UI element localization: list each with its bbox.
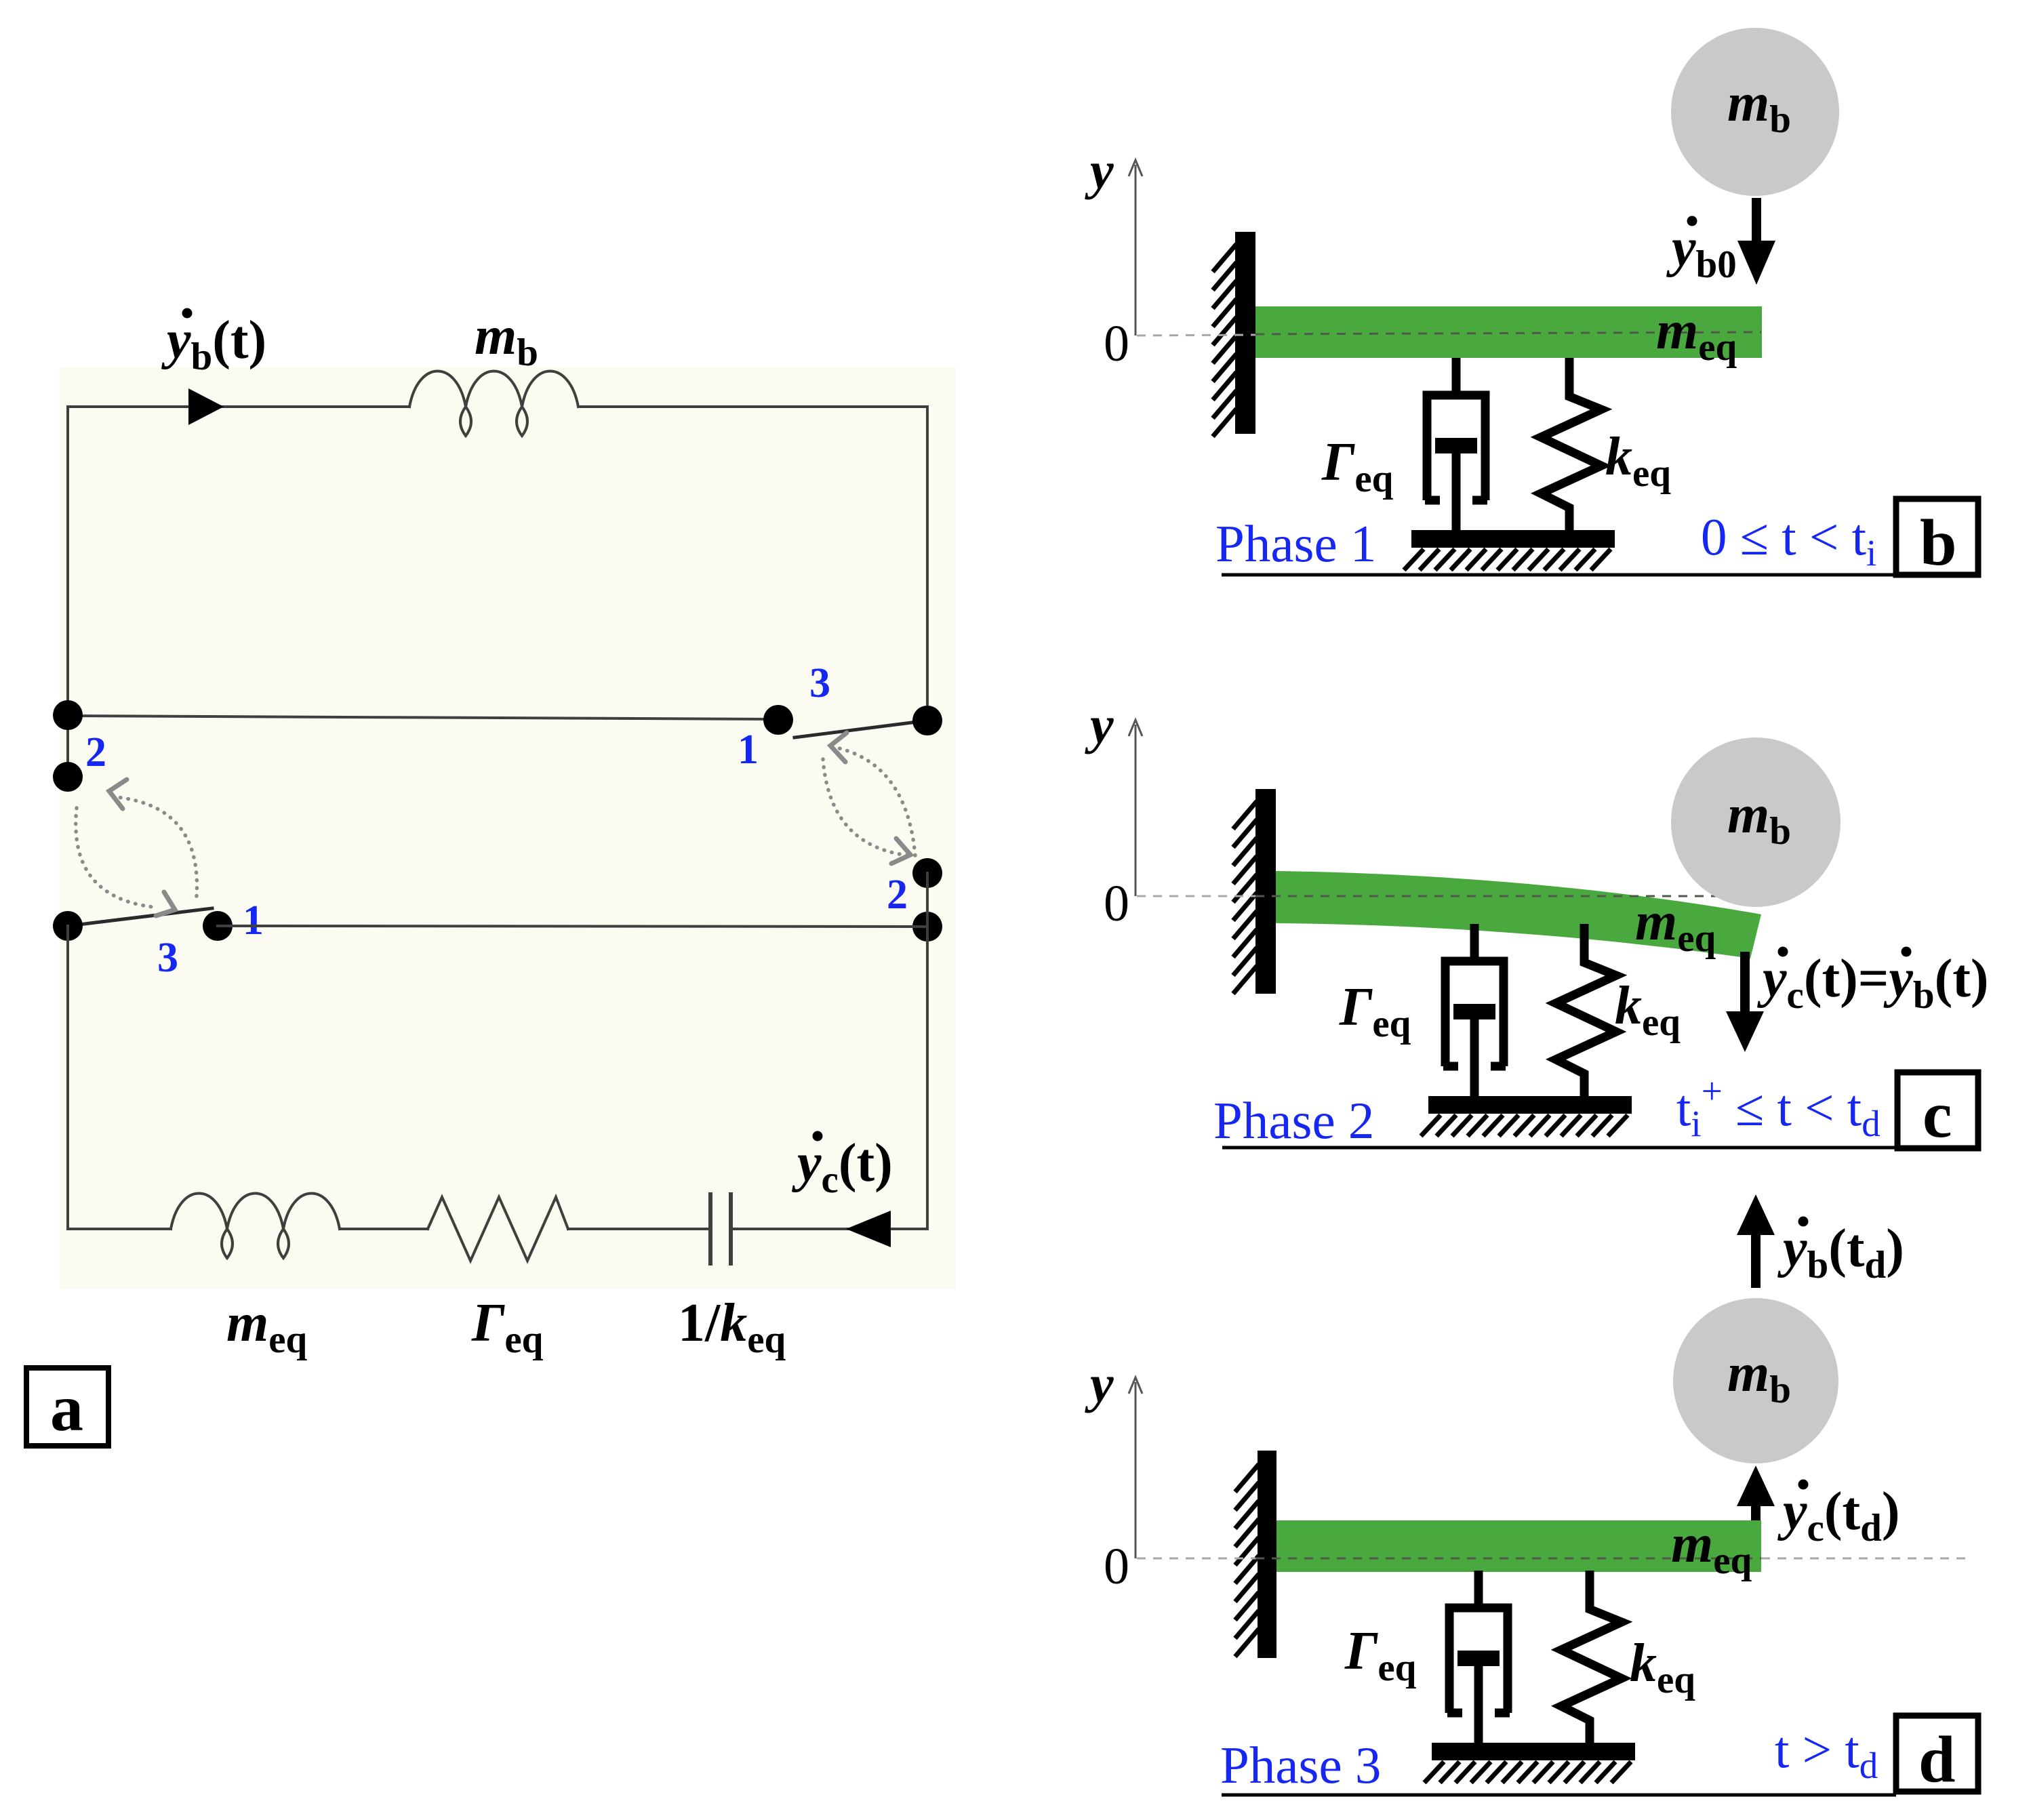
capacitor 1/k_eq bbox=[710, 1194, 731, 1263]
switch S2 toggle arcs bbox=[823, 733, 915, 864]
svg-text:b: b bbox=[1920, 506, 1957, 580]
wall bar (c) bbox=[1255, 789, 1276, 994]
wire left vertical upper bbox=[66, 407, 69, 777]
launch arrow yb(td) (d) bbox=[1737, 1194, 1775, 1288]
velocity arrow yb0 (b) bbox=[1737, 198, 1775, 285]
svg-text:2: 2 bbox=[887, 872, 908, 918]
underline (b) bbox=[1222, 573, 1895, 577]
svg-text:d: d bbox=[1918, 1723, 1956, 1796]
wire bottom segment 3 bbox=[568, 1228, 710, 1230]
node left-2 bbox=[53, 762, 83, 792]
wire middle upper bbox=[68, 716, 778, 719]
base (c) bbox=[1428, 1096, 1632, 1114]
node right-bottom bbox=[912, 912, 942, 942]
spring k_eq (d) bbox=[1561, 1571, 1622, 1743]
node right-top bbox=[912, 706, 942, 735]
beam m_eq (d) bbox=[1276, 1520, 1761, 1572]
panel label box c bbox=[1897, 1072, 1978, 1152]
node left-1 bbox=[203, 911, 233, 941]
ball m_b (b) bbox=[1671, 28, 1839, 196]
underline (d) bbox=[1222, 1794, 1896, 1797]
wire bottom segment 2 bbox=[340, 1228, 428, 1230]
wire bottom segment 4 bbox=[731, 1228, 927, 1230]
zero dashed line (d) bbox=[1137, 1558, 1968, 1560]
wire right vertical upper bbox=[926, 407, 929, 721]
node right-2 bbox=[912, 858, 942, 888]
beam m_eq (c, deflected) bbox=[1276, 871, 1761, 958]
wire top-right segment bbox=[578, 405, 927, 408]
svg-text:0: 0 bbox=[1104, 875, 1129, 932]
node left-top bbox=[53, 700, 83, 730]
svg-text:3: 3 bbox=[809, 660, 830, 706]
resistor Gamma_eq bbox=[428, 1197, 568, 1261]
label yb(t) bbox=[161, 308, 266, 379]
base (b) bbox=[1411, 530, 1615, 548]
wire bottom segment 1 bbox=[68, 1228, 171, 1230]
wall bar (d) bbox=[1258, 1451, 1276, 1658]
wire top-left segment bbox=[68, 405, 409, 408]
svg-text:a: a bbox=[50, 1372, 83, 1445]
wall hatch (b) bbox=[1213, 244, 1236, 437]
underline (c) bbox=[1222, 1146, 1896, 1150]
spring k_eq (c) bbox=[1556, 924, 1616, 1096]
ball m_b (c) bbox=[1671, 737, 1841, 907]
label yb0 (b) bbox=[1666, 216, 1737, 287]
switch S1 lever bbox=[68, 908, 212, 926]
panel label box a bbox=[26, 1368, 108, 1446]
zero dashed line (c) bbox=[1137, 895, 1750, 897]
label yb(td) (d) bbox=[1777, 1217, 1904, 1287]
inductor m_b bbox=[409, 371, 578, 437]
node left-pivot bbox=[53, 911, 83, 941]
y axis (c) bbox=[1129, 720, 1142, 896]
svg-text:1: 1 bbox=[243, 897, 264, 944]
ground hatch (d) bbox=[1424, 1762, 1631, 1783]
current arrow yc(t) bbox=[846, 1211, 891, 1247]
wire left vertical lower bbox=[66, 926, 69, 1229]
node right-1 bbox=[763, 705, 793, 735]
svg-text:Phase 3: Phase 3 bbox=[1220, 1736, 1381, 1794]
spring k_eq (b) bbox=[1541, 358, 1601, 530]
svg-text:0: 0 bbox=[1104, 1538, 1129, 1595]
label yc(td) (d) bbox=[1777, 1480, 1899, 1550]
damper (d) bbox=[1447, 1571, 1510, 1744]
tip arrow yc(td) (d) bbox=[1737, 1465, 1775, 1522]
inductor m_eq bbox=[171, 1194, 340, 1259]
wall bar (b) bbox=[1235, 232, 1255, 434]
panel label box b bbox=[1896, 499, 1978, 580]
beam m_eq (b) bbox=[1255, 306, 1762, 358]
svg-text:0 ≤ t < ti: 0 ≤ t < ti bbox=[1701, 508, 1876, 573]
base (d) bbox=[1432, 1743, 1635, 1760]
svg-text:1: 1 bbox=[738, 727, 759, 773]
svg-text:yc(td): yc(td) bbox=[1777, 1482, 1899, 1550]
wall hatch (d) bbox=[1235, 1464, 1259, 1657]
svg-text:0: 0 bbox=[1104, 315, 1129, 372]
wire right vertical lower bbox=[926, 873, 929, 1229]
label yc(t)=yb(t) (c) bbox=[1756, 947, 1988, 1017]
y axis (b) bbox=[1129, 160, 1142, 336]
damper (b) bbox=[1425, 358, 1487, 531]
switch S2 lever bbox=[795, 721, 927, 737]
wire middle lower bbox=[218, 926, 927, 927]
panel label box d bbox=[1896, 1716, 1978, 1796]
svg-text:yb(t): yb(t) bbox=[161, 310, 266, 378]
current arrow yb(t) bbox=[188, 388, 224, 425]
wall hatch (c) bbox=[1233, 801, 1257, 994]
ball m_b (d) bbox=[1673, 1298, 1838, 1463]
damper (c) bbox=[1443, 924, 1506, 1097]
svg-text:Phase 2: Phase 2 bbox=[1213, 1091, 1374, 1150]
label yc(t) (circuit) bbox=[791, 1131, 893, 1202]
velocity arrow yc(t) (c) bbox=[1726, 952, 1764, 1052]
switch S1 toggle arcs bbox=[76, 780, 197, 916]
ground hatch (c) bbox=[1421, 1115, 1628, 1136]
svg-text:yc(t): yc(t) bbox=[791, 1133, 893, 1201]
svg-text:2: 2 bbox=[85, 729, 106, 775]
ground hatch (b) bbox=[1404, 549, 1611, 570]
y axis (d) bbox=[1129, 1377, 1142, 1558]
svg-text:Phase 1: Phase 1 bbox=[1215, 514, 1376, 573]
svg-text:c: c bbox=[1923, 1078, 1952, 1152]
svg-text:3: 3 bbox=[157, 935, 178, 981]
zero dashed line (b) bbox=[1137, 332, 1761, 336]
